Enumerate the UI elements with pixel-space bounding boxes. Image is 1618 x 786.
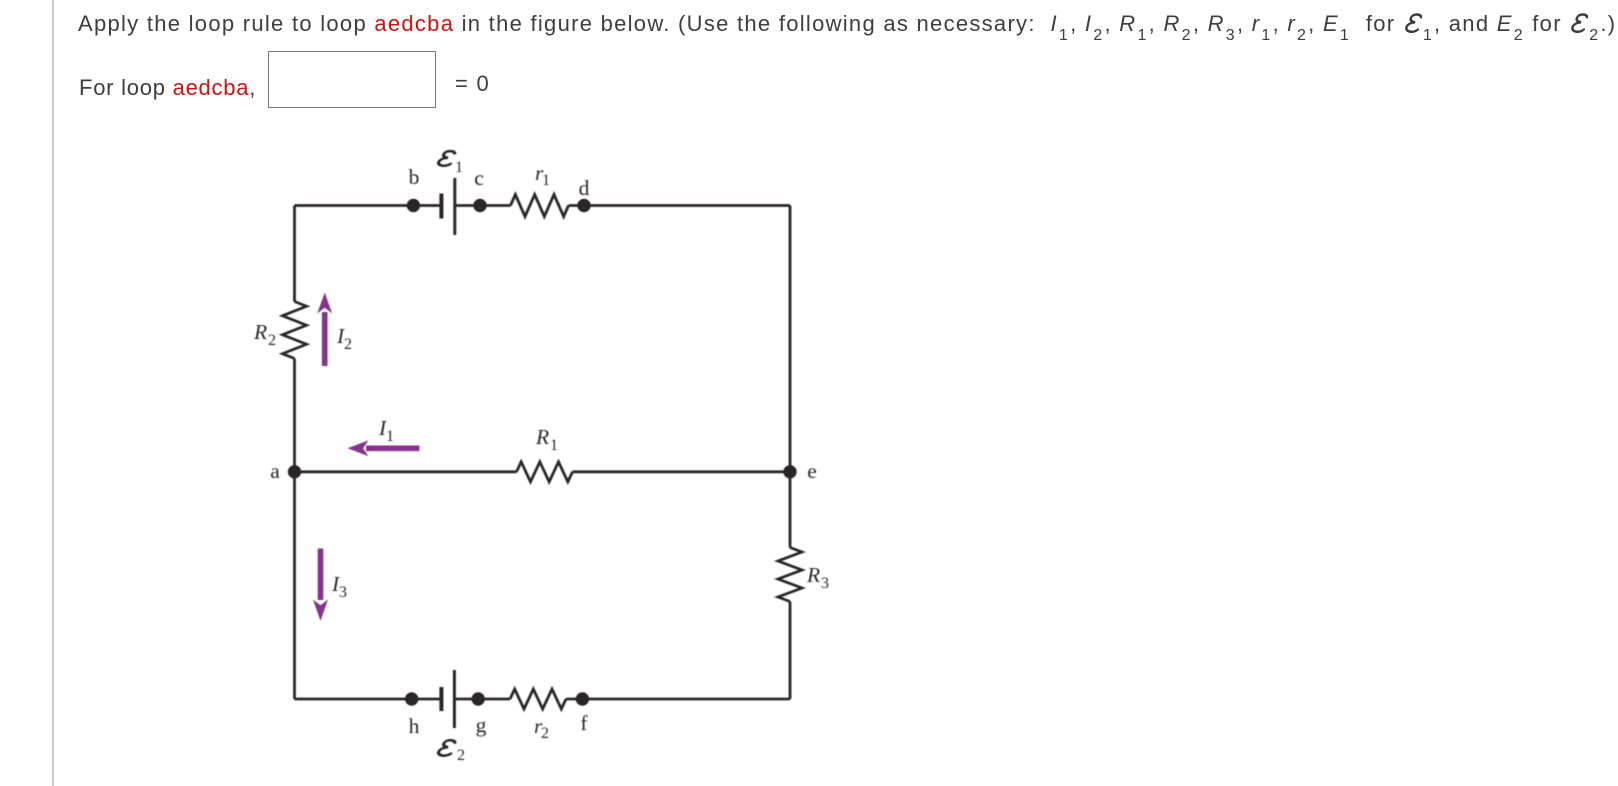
node f <box>576 692 589 705</box>
battery E1 short plate <box>439 194 443 219</box>
node h <box>405 692 418 705</box>
svg-text:b: b <box>409 165 420 189</box>
battery E2 long plate <box>453 670 456 728</box>
node b <box>407 199 420 212</box>
wire: middle branch right of R1 <box>573 470 791 473</box>
svg-text:c: c <box>474 166 484 190</box>
battery E1 long plate <box>453 178 456 235</box>
problem statement line 1 <box>78 11 1616 37</box>
svg-text:1: 1 <box>550 437 558 454</box>
node d <box>577 199 590 212</box>
resistor R2 <box>283 302 307 359</box>
svg-text:a: a <box>270 459 280 483</box>
label E2 (script) <box>438 740 456 755</box>
svg-text:e: e <box>807 459 817 483</box>
wire: left branch lower segment <box>293 359 296 700</box>
node g <box>472 692 485 705</box>
wire: bottom side left of battery E2 <box>295 698 441 701</box>
wire: top side right of r1 <box>569 204 791 207</box>
svg-text:1: 1 <box>386 428 394 445</box>
node e <box>783 465 796 478</box>
svg-text:f: f <box>580 711 588 735</box>
svg-text:1: 1 <box>455 159 463 176</box>
svg-text:h: h <box>409 714 420 738</box>
left divider line <box>52 0 54 786</box>
svg-text:R: R <box>535 425 549 449</box>
wire: top side left of battery E1 <box>295 204 441 207</box>
wire: left branch top segment (b side), node b to battery <box>293 206 296 302</box>
svg-text:2: 2 <box>344 336 352 353</box>
resistor R3 <box>778 548 802 602</box>
svg-text:d: d <box>579 176 590 200</box>
current arrow I2 (up) <box>317 293 332 367</box>
svg-text:2: 2 <box>541 725 549 742</box>
battery E2 short plate <box>439 687 443 711</box>
resistor r2 <box>510 689 566 709</box>
wire: right branch upper segment <box>789 206 792 548</box>
wire: middle branch left of R1 <box>295 470 517 473</box>
wire: top side between battery and resistor r1 <box>455 204 511 207</box>
equals zero <box>455 71 490 97</box>
node c <box>473 199 486 212</box>
svg-text:3: 3 <box>339 584 347 601</box>
node a <box>288 465 301 478</box>
resistor r1 <box>511 195 569 217</box>
wire: bottom side right of r2 <box>566 698 790 701</box>
svg-text:R: R <box>253 320 267 344</box>
line 2: For loop aedcba, <box>79 75 256 101</box>
svg-text:3: 3 <box>821 575 829 592</box>
label E1 (script) <box>438 151 456 166</box>
answer input box <box>268 51 436 108</box>
wire: bottom side between battery and r2 <box>454 698 510 701</box>
svg-text:g: g <box>476 713 487 737</box>
current arrow I3 (down) <box>313 549 328 622</box>
current arrow I1 (left) <box>348 440 420 456</box>
svg-text:1: 1 <box>542 172 550 189</box>
svg-text:R: R <box>806 563 820 587</box>
svg-text:2: 2 <box>457 747 465 764</box>
resistor R1 <box>517 462 573 482</box>
svg-text:2: 2 <box>268 332 276 349</box>
wire: right branch lower segment <box>789 602 792 700</box>
